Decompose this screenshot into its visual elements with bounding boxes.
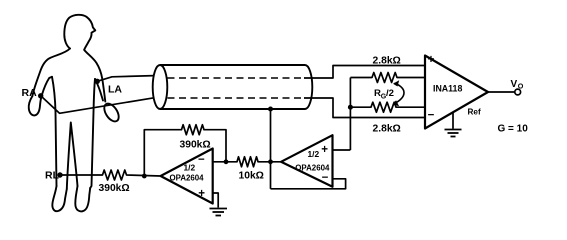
svg-text:390kΩ: 390kΩ (180, 139, 211, 150)
svg-text:2.8kΩ: 2.8kΩ (373, 124, 401, 135)
svg-text:LA: LA (108, 84, 122, 96)
svg-text:O: O (518, 82, 524, 91)
svg-text:390kΩ: 390kΩ (99, 183, 130, 194)
svg-text:RL: RL (45, 170, 60, 182)
svg-text:/2: /2 (386, 88, 394, 99)
svg-text:INA118: INA118 (433, 84, 462, 94)
svg-text:−: − (428, 110, 435, 122)
svg-text:+: + (428, 54, 435, 66)
svg-text:1/2: 1/2 (184, 163, 196, 173)
svg-text:−: − (198, 154, 205, 166)
svg-text:V: V (511, 79, 518, 90)
svg-text:−: − (322, 172, 329, 184)
svg-text:RA: RA (22, 87, 38, 99)
svg-text:G = 10: G = 10 (498, 123, 529, 134)
svg-text:10kΩ: 10kΩ (239, 171, 264, 182)
svg-text:1/2: 1/2 (308, 149, 320, 159)
svg-text:Ref: Ref (468, 107, 481, 116)
svg-text:+: + (321, 144, 328, 156)
svg-text:2.8kΩ: 2.8kΩ (373, 56, 401, 67)
svg-text:OPA2604: OPA2604 (170, 173, 205, 182)
svg-text:+: + (198, 188, 205, 200)
